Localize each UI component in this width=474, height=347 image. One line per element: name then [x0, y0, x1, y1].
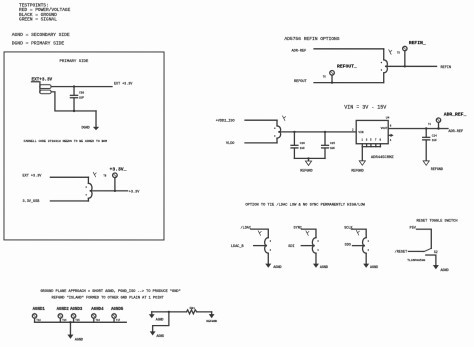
svg-text:REFGND: REFGND — [351, 170, 363, 174]
svg-text:VLDO: VLDO — [226, 142, 234, 146]
node (junction) — [69, 321, 71, 323]
link LK5 — [312, 238, 316, 246]
wire — [362, 146, 380, 148]
capacitor C25 — [324, 132, 326, 145]
ground REFGND (FB1) — [211, 312, 213, 314]
ground REFGND (caps) — [308, 158, 310, 161]
note: ground plane approach — [40, 289, 180, 300]
ground REFGND (C24) — [423, 161, 429, 165]
wire — [351, 229, 366, 238]
ground AGND (S2) — [426, 255, 436, 265]
note: testpoint colour legend — [19, 2, 71, 22]
svg-text:AGND = SECONDARY SIDE: AGND = SECONDARY SIDE — [12, 32, 70, 38]
switch S2 lever — [424, 248, 431, 251]
link LK3 (VIN select) — [276, 120, 278, 126]
node (junction) — [73, 85, 75, 87]
svg-text:ADR445CRMZ: ADR445CRMZ — [371, 156, 395, 160]
svg-text:/LDAC: /LDAC — [240, 226, 251, 231]
link LK2 (REFIN select) — [383, 49, 385, 60]
svg-text:T14: T14 — [62, 319, 67, 322]
ferrite bead L1 (Farnell core) — [40, 85, 51, 89]
svg-text:REFIN_: REFIN_ — [409, 40, 426, 46]
svg-text:PRIMARY SIDE: PRIMARY SIDE — [60, 60, 89, 64]
node (junction) — [324, 131, 326, 133]
svg-text:DGND: DGND — [82, 127, 90, 131]
svg-text:AGND2: AGND2 — [57, 308, 70, 312]
svg-text:AGND5: AGND5 — [111, 308, 124, 312]
svg-text:DGND = PRIMARY SIDE: DGND = PRIMARY SIDE — [12, 40, 65, 46]
node (junction) — [307, 157, 309, 159]
svg-text:VOUT: VOUT — [381, 127, 388, 130]
svg-text:SYNC: SYNC — [293, 227, 301, 231]
svg-text:1UF: 1UF — [330, 147, 335, 150]
link LK4 — [265, 238, 269, 246]
capacitor C38 — [73, 87, 75, 96]
svg-text:REFGND: REFGND — [300, 169, 312, 173]
svg-text:T16: T16 — [96, 319, 101, 322]
ground AGND (testpoint bus) — [69, 322, 71, 334]
ground AGND (lower) — [150, 331, 156, 335]
svg-text:/RESET: /RESET — [395, 250, 408, 255]
testpoint AGND2 — [58, 314, 62, 318]
testpoint AGND1 — [33, 308, 124, 312]
node (junction) — [73, 110, 75, 112]
pin numbers bottom — [361, 139, 381, 142]
svg-text:AGND1: AGND1 — [33, 308, 46, 312]
svg-text:AGND: AGND — [156, 334, 164, 338]
wire — [51, 92, 96, 111]
testpoint +3.3V_ — [114, 178, 116, 191]
svg-text:VIN = 3V - 15V: VIN = 3V - 15V — [344, 105, 386, 111]
testpoint REFIN_ — [404, 51, 406, 67]
wire — [32, 81, 39, 83]
capacitor C26 — [293, 132, 295, 145]
svg-text:OPTION TO TIE /LDAC LOW & NO S: OPTION TO TIE /LDAC LOW & NO SYNC PERMAN… — [245, 203, 365, 208]
node (junction) — [425, 127, 427, 129]
ground AGND (LK4) — [267, 253, 269, 263]
wire — [153, 312, 169, 332]
svg-text:FARNELL CORE 3710313 NEEDS TO: FARNELL CORE 3710313 NEEDS TO BE ADDED T… — [24, 139, 108, 143]
wire — [301, 245, 314, 247]
node (junction) — [293, 131, 295, 133]
node (junction) — [404, 65, 406, 67]
svg-text:AGND: AGND — [440, 269, 448, 273]
wire — [152, 311, 187, 313]
ground AGND (LK6) — [365, 253, 367, 263]
svg-text:C24: C24 — [432, 134, 437, 137]
svg-text:VIN: VIN — [358, 131, 363, 134]
svg-text:REFGND: REFGND — [431, 168, 443, 172]
wire — [279, 131, 356, 133]
svg-text:+3.3V_: +3.3V_ — [110, 167, 127, 173]
wire VOUT — [388, 128, 448, 130]
wire — [35, 321, 127, 323]
wire — [245, 142, 277, 144]
wire — [352, 245, 364, 247]
svg-text:AD5756 REFIN OPTIONS: AD5756 REFIN OPTIONS — [284, 36, 339, 42]
primary side boundary box — [4, 52, 164, 240]
svg-text:ADR-REF: ADR-REF — [448, 130, 463, 134]
svg-text:AGND3: AGND3 — [70, 308, 83, 312]
svg-text:AGND: AGND — [273, 266, 281, 270]
wire — [314, 48, 384, 50]
testpoint REFOUT_ — [330, 71, 335, 76]
svg-text:ADR_REF_: ADR_REF_ — [444, 111, 467, 117]
node (junction) — [437, 127, 439, 129]
capacitor C24 — [425, 129, 427, 138]
svg-text:AGND4: AGND4 — [91, 308, 104, 312]
svg-text:C26: C26 — [300, 142, 305, 145]
ground REFGND (U4) — [361, 147, 363, 161]
wire — [50, 200, 88, 202]
svg-text:SDO: SDO — [345, 244, 351, 248]
ground AGND (left of FB1) — [151, 312, 153, 314]
wire — [314, 82, 383, 84]
svg-text:T15: T15 — [75, 319, 80, 322]
wire — [251, 229, 269, 238]
node (junction) — [114, 190, 116, 192]
svg-text:GREEN = SIGNAL: GREEN = SIGNAL — [19, 17, 57, 23]
node (junction) — [168, 311, 170, 313]
wire — [254, 245, 267, 247]
testpoint AGND3 — [71, 314, 75, 318]
svg-text:REFGND "ISLAND" FORMED TO OTHE: REFGND "ISLAND" FORMED TO OTHER GND PLAI… — [52, 296, 165, 301]
link LK6 — [363, 238, 367, 246]
wire — [51, 86, 112, 88]
wire — [386, 65, 437, 67]
pin 4 (trim, nc) — [388, 134, 390, 136]
svg-text:C25: C25 — [330, 142, 335, 145]
svg-text:3.3V_USB: 3.3V_USB — [22, 200, 39, 204]
svg-text:TL36P00500: TL36P00500 — [407, 259, 425, 262]
svg-text:LDAC_B: LDAC_B — [231, 245, 244, 249]
ground AGND (LK5) — [315, 253, 317, 263]
testpoint AGND5 — [112, 314, 116, 318]
wire — [416, 229, 431, 248]
wire — [197, 311, 212, 313]
wire — [50, 176, 88, 178]
svg-text:AGND: AGND — [320, 266, 328, 270]
svg-text:1UF: 1UF — [432, 139, 437, 142]
svg-text:+3.3V: +3.3V — [129, 190, 140, 194]
svg-text:EXT +3.3V: EXT +3.3V — [114, 83, 133, 87]
svg-text:FB1: FB1 — [190, 307, 196, 310]
link LK1 (3.3V select) — [87, 177, 89, 183]
svg-text:+VDD2_ISO: +VDD2_ISO — [216, 119, 235, 123]
svg-text:P5V: P5V — [410, 227, 417, 231]
svg-text:AGND: AGND — [156, 317, 164, 321]
wire — [90, 190, 127, 192]
svg-text:T13: T13 — [36, 319, 41, 322]
testpoint AGND4 — [92, 314, 96, 318]
svg-text:SDI: SDI — [288, 245, 294, 249]
wire — [294, 157, 325, 159]
svg-text:REFOUT_: REFOUT_ — [337, 64, 357, 70]
op-amp U4 ADR445 body — [356, 120, 388, 143]
svg-text:U4: U4 — [386, 116, 390, 119]
svg-text:AGND: AGND — [75, 339, 83, 343]
wire — [301, 229, 316, 238]
svg-text:EXT +3.3V: EXT +3.3V — [22, 174, 42, 178]
svg-text:ADR-REF: ADR-REF — [292, 50, 307, 54]
wire — [408, 250, 423, 252]
svg-text:T17: T17 — [116, 319, 121, 322]
svg-text:AGND: AGND — [370, 266, 378, 270]
svg-text:REFGND: REFGND — [206, 320, 217, 323]
wire — [245, 119, 277, 121]
svg-text:REFIN: REFIN — [441, 66, 452, 70]
svg-text:S2: S2 — [434, 250, 438, 254]
net EXT+3.3V label — [32, 78, 53, 83]
svg-text:C38: C38 — [79, 92, 84, 95]
note: ground naming — [12, 32, 70, 46]
svg-text:REFOUT: REFOUT — [294, 80, 307, 84]
svg-text:1UF: 1UF — [300, 147, 305, 150]
testpoint ADR_REF_ — [438, 122, 440, 128]
bottom gnd pins — [361, 144, 363, 147]
svg-text:1UF: 1UF — [79, 96, 84, 99]
svg-text:GROUND PLANE APPROACH = SHORT: GROUND PLANE APPROACH = SHORT AGND, PGND… — [40, 289, 180, 294]
svg-text:RESET TOGGLE SWITCH: RESET TOGGLE SWITCH — [416, 220, 457, 224]
ground DGND — [95, 111, 97, 127]
